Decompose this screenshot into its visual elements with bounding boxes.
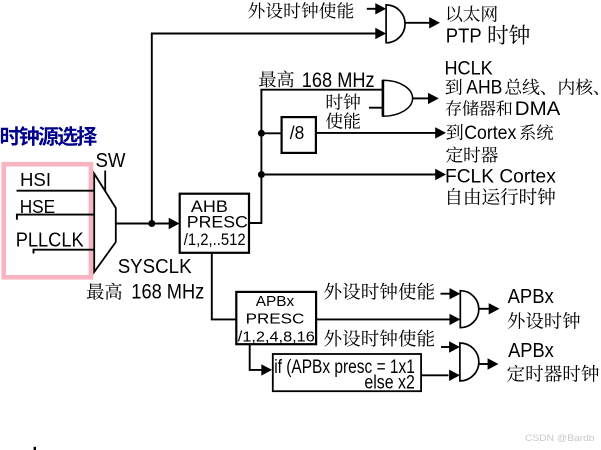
label 时钟 (HCLK enable) [327,93,361,110]
label 到 (Cortex) [447,124,463,140]
arrowhead APBx gate U3 upper input [450,288,461,299]
svg-text:PRESC: PRESC [187,213,248,231]
label 使能 (HCLK enable) [326,112,360,129]
svg-text:Cortex: Cortex [464,123,516,144]
arrowhead into AHB PRESC [169,218,180,229]
svg-text:HCLK: HCLK [445,59,493,80]
label 外设时钟 [508,312,580,329]
wire HSI to mux [17,190,96,192]
label 以太网 [447,6,497,22]
pink highlight box (clock sources) [4,164,91,277]
label 定时器 [446,146,498,162]
svg-text:DMA: DMA [515,98,561,120]
wire SYSCLK up to PTP gate [152,34,376,224]
wire APBx PRESC output [316,318,449,320]
svg-text:APBx: APBx [508,340,554,362]
svg-text:/1,2,4,8,16: /1,2,4,8,16 [238,329,315,346]
wire APBx enable 1 [441,293,450,295]
title 时钟源选择 [1,126,97,146]
arrowhead U3 output [489,303,500,314]
svg-text:APBx: APBx [508,286,554,308]
label 外设时钟使能 (PTP) [248,2,353,19]
wire APBx enable 2 [441,346,450,348]
arrowhead PTP gate upper input [375,3,386,14]
arrowhead into APBx gate U4 lower input [449,370,460,381]
svg-text:CSDN @Bardb: CSDN @Bardb [525,433,595,444]
wire AHB output riser [249,90,383,223]
wire if box output [421,374,448,376]
box AHB PRESC [180,194,249,253]
svg-text:/1,2,..512: /1,2,..512 [184,231,246,249]
svg-text:else x2: else x2 [364,373,415,394]
box /8 divider [282,117,316,153]
arrowhead FCLK [435,169,446,180]
label 外设时钟使能 (APBx timer) [324,329,434,346]
label 外设时钟使能 (APBx) [324,283,434,300]
wire SW select [104,171,106,195]
junction dot SYSCLK node [148,220,155,227]
wire FCLK [261,174,435,176]
arrowhead U4 output [488,358,499,369]
wire mux output SYSCLK [116,223,169,225]
label PTP 时钟 [489,25,530,45]
wire AHB to APBx PRESC [212,253,237,320]
svg-text:APBx: APBx [256,293,295,310]
junction dot /8 branch [258,130,265,137]
svg-text:AHB: AHB [466,78,502,99]
junction dot FCLK branch [258,171,265,178]
svg-text:PLLCLK: PLLCLK [16,229,84,252]
stray period mark [34,447,36,450]
svg-text:PTP: PTP [446,25,482,47]
label 存储器和 [446,100,512,116]
arrowhead HCLK output [428,93,439,104]
svg-text:FCLK Cortex: FCLK Cortex [445,166,556,188]
wire HCLK gate output [413,97,428,99]
svg-text:SW: SW [96,150,126,172]
wire APBx PRESC to if box [250,344,262,370]
svg-text:PRESC: PRESC [246,311,305,328]
label 定时器时钟 [507,365,599,382]
arrowhead PTP output [429,17,440,28]
AND gate U4 (APBx timer clock) [460,343,479,381]
wire PTP gate output [405,22,429,24]
arrowhead into if box [261,364,272,375]
wire HCLK enable [369,107,382,109]
svg-text:SYSCLK: SYSCLK [118,255,192,278]
wire PTP enable [367,8,376,10]
arrowhead into APBx gate U3 lower input [450,314,461,325]
wire U4 output [479,363,488,365]
mux SW (clock source selector) [94,174,116,272]
AND gate U1 (ethernet PTP clock) [386,5,405,43]
svg-text:168 MHz: 168 MHz [131,280,204,304]
wire PLLCLK to mux [34,250,96,254]
AND gate U2 (HCLK) [383,80,413,116]
label 到 (AHB) [446,79,462,95]
arrowhead into PTP gate lower input [375,28,386,39]
arrowhead APBx gate U4 upper input [449,341,460,352]
box if (APBx presc = 1x1 else x2) [273,354,421,391]
gate U2 input bar [382,80,385,116]
label 最高 (SYSCLK) [87,283,122,300]
box APBx PRESC [236,292,316,344]
svg-text:/8: /8 [290,122,305,143]
wire U3 output [479,308,489,310]
label 自由运行时钟 [448,188,555,205]
label 最高 (HCLK) [259,71,294,88]
label 总线、内核、 [505,78,598,95]
label 系统 [520,124,553,140]
wire to /8 box [261,132,281,134]
svg-text:168 MHz: 168 MHz [302,68,375,92]
AND gate U3 (APBx peripheral clock) [460,291,479,328]
wire /8 output [316,132,436,134]
wire HSE to mux [17,215,95,220]
arrowhead cortex systick [435,127,446,138]
svg-text:HSI: HSI [20,169,51,190]
